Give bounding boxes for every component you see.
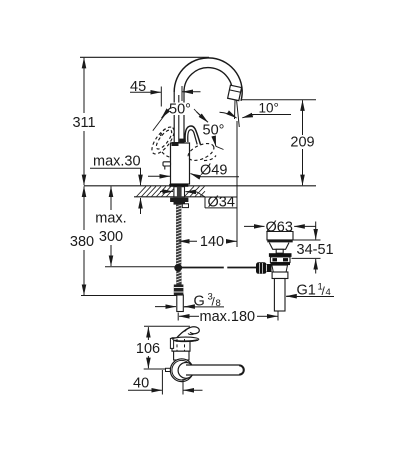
dimension 34-51: [290, 222, 334, 274]
top extension line: [80, 56, 209, 58]
svg-text:8: 8: [216, 298, 221, 309]
supply pipe end G3/8: [177, 295, 184, 312]
top view spur: [166, 368, 171, 371]
pop-up rod junction ball: [174, 264, 182, 272]
50 degree label 1: [153, 102, 208, 131]
spout tip (aerator): [228, 85, 242, 100]
handle flat ellipse: [173, 337, 199, 341]
svg-text:4: 4: [326, 287, 331, 298]
handle loop: [185, 126, 200, 144]
top view lever hub: [178, 363, 194, 379]
drain top flange bar: [269, 253, 292, 257]
supply hose nut: [174, 285, 184, 296]
svg-text:Ø34: Ø34: [208, 194, 235, 210]
svg-text:300: 300: [99, 229, 123, 245]
svg-text:311: 311: [72, 115, 95, 131]
svg-text:Ø49: Ø49: [200, 163, 227, 179]
dimension 40: [128, 370, 203, 395]
spout outer arc: [174, 58, 242, 101]
dimension diameter 63: [244, 219, 316, 235]
top view spout lever: [186, 365, 244, 375]
svg-text:106: 106: [136, 341, 160, 357]
drain lower band: [270, 263, 290, 266]
dimension G 3/8: [155, 291, 224, 309]
dimension 45: [130, 79, 201, 107]
svg-text:140: 140: [200, 234, 224, 250]
svg-text:50°: 50°: [203, 123, 225, 139]
water stream axis extension: [236, 121, 238, 247]
mounting nut under deck: [170, 198, 188, 202]
dimension 380: [70, 186, 177, 295]
drain tailpipe: [274, 279, 285, 312]
spout riser tube: [173, 92, 175, 143]
lower threaded rod below ball: [176, 272, 181, 285]
drain taper: [272, 265, 288, 272]
dashed handle position left (50deg): [148, 124, 178, 158]
pop-up horizontal rod: [182, 267, 224, 269]
svg-text:40: 40: [133, 376, 149, 392]
countertop deck top line: [84, 185, 316, 187]
dashed handle position right (50deg): [186, 140, 217, 164]
svg-text:max.: max.: [95, 211, 126, 227]
svg-text:34-51: 34-51: [297, 242, 334, 258]
shank sleeve through deck: [174, 187, 185, 197]
spout inner arc: [184, 68, 232, 97]
top view body: [172, 338, 190, 351]
body top notch: [172, 142, 179, 146]
dimension 10 degrees: [241, 100, 316, 118]
riser-body joint mark: [179, 139, 183, 144]
dimension max.300: [95, 186, 174, 266]
dimension G1 1/4: [286, 282, 334, 299]
drain body with slots: [270, 257, 290, 263]
top view base circle: [170, 359, 193, 382]
countertop deck bottom line: [134, 196, 205, 198]
lever spur on body left: [163, 162, 171, 166]
10 degree second leader arc: [220, 112, 237, 118]
top view body lower: [174, 351, 189, 360]
dimension diameter 49: [148, 163, 239, 179]
drain neck: [269, 243, 289, 250]
body base gasket band: [169, 184, 188, 187]
50 degree label 2: [203, 123, 225, 150]
dimension diameter 34: [160, 192, 237, 211]
threaded supply rod: [176, 205, 181, 265]
dimension 311: [72, 58, 95, 185]
svg-text:50°: 50°: [169, 102, 191, 118]
handle knob swirl: [174, 327, 191, 341]
dimension 209: [290, 100, 314, 185]
svg-text:max.180: max.180: [200, 309, 256, 325]
svg-text:G1: G1: [297, 283, 316, 299]
svg-text:10°: 10°: [259, 101, 279, 116]
drain plug knob: [276, 249, 283, 253]
water stream angle lines: [234, 101, 237, 120]
dimension 106: [136, 326, 190, 369]
dimension max.180: [178, 307, 278, 326]
svg-text:G: G: [194, 293, 205, 309]
svg-text:380: 380: [70, 234, 94, 250]
deck hatching: [137, 186, 206, 196]
drain flange: [267, 232, 293, 240]
pop-up rod clamp: [256, 262, 267, 274]
faucet body: [171, 143, 190, 184]
drain collar: [272, 272, 288, 279]
svg-text:209: 209: [290, 135, 314, 151]
svg-text:max.30: max.30: [93, 154, 141, 170]
dimension 140: [179, 234, 237, 250]
dimension max.30: [90, 154, 141, 215]
retaining clip: [182, 204, 188, 208]
